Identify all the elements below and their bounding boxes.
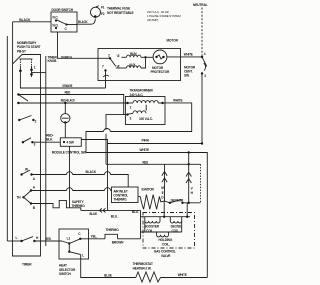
wire yellow: heat selector to thermo	[80, 235, 105, 239]
wire pink: module to cent switch line	[81, 139, 203, 145]
svg-text:N.O.: N.O.	[53, 24, 59, 28]
gas control valve dashed box	[143, 213, 195, 258]
svg-text:WHITE: WHITE	[178, 273, 187, 277]
svg-text:RED-BLACK: RED-BLACK	[61, 99, 76, 103]
svg-text:HEATER-2 W.: HEATER-2 W.	[133, 266, 152, 270]
svg-text:THERMO.: THERMO.	[113, 198, 127, 202]
wire: white drop to red junction	[188, 151, 201, 203]
svg-text:ORANGE: ORANGE	[62, 84, 72, 88]
svg-text:WHITE: WHITE	[140, 148, 150, 152]
timer contact TH changeover	[17, 186, 36, 210]
supply system note	[147, 10, 181, 22]
node NEUTRAL (dashed drop)	[193, 3, 208, 57]
wire blue: heat selector to thermostat heater	[81, 255, 136, 278]
heat selector switch box	[59, 229, 89, 276]
ignitor	[138, 187, 165, 238]
svg-text:MOTOR: MOTOR	[167, 39, 179, 43]
svg-text:L: L	[16, 236, 18, 240]
module control switch box	[52, 138, 87, 155]
svg-text:PINK: PINK	[142, 139, 150, 143]
wire: timer to air inlet thermo (lower)	[31, 188, 112, 191]
wire orange: push-to-start to motor terminal 7	[20, 71, 105, 88]
motor box	[98, 39, 181, 81]
gas valve bottom rail	[141, 231, 182, 233]
connector V-H (sensor plug)	[186, 164, 194, 203]
svg-text:SWITCH: SWITCH	[59, 272, 72, 276]
timer knob dash-dot line	[46, 55, 58, 246]
motor protector	[144, 50, 170, 74]
wire blue: safety thermo to ignitor block	[81, 208, 141, 218]
wire: module drop v1	[69, 146, 71, 208]
svg-text:F2: F2	[101, 12, 105, 16]
svg-text:(30 AMP): (30 AMP)	[147, 18, 158, 22]
wire red-black: timer to transformer primary	[18, 99, 127, 103]
svg-text:BLACK: BLACK	[19, 18, 31, 22]
svg-text:L1: L1	[67, 237, 71, 241]
wire brown: thermo to gas valve	[118, 238, 141, 240]
svg-text:E: E	[162, 191, 164, 195]
svg-text:RED: RED	[45, 237, 51, 241]
wire L1 black feed bus (double line, left edge)	[7, 22, 12, 241]
svg-text:BLACK: BLACK	[86, 170, 97, 174]
thermostat heater resistor	[133, 262, 161, 282]
svg-text:BLU.: BLU.	[132, 210, 139, 214]
sensor	[165, 198, 201, 204]
svg-text:L: L	[82, 254, 84, 258]
svg-text:WHITE: WHITE	[173, 98, 183, 102]
motor terminal 2 + start switch	[108, 54, 120, 69]
door switch S1	[51, 8, 77, 32]
timer contact L-H (heat)	[7, 236, 39, 242]
svg-text:BLUE: BLUE	[104, 274, 112, 278]
svg-text:IGNITOR: IGNITOR	[142, 187, 155, 191]
wire: module drop to blue circuit	[107, 144, 109, 211]
push-to-start button PB-ST	[19, 59, 36, 76]
svg-text:THERMO.: THERMO.	[72, 204, 86, 208]
svg-text:RED: RED	[143, 160, 149, 164]
svg-text:PB-ST: PB-ST	[17, 49, 26, 53]
svg-text:4 SW: 4 SW	[67, 141, 74, 145]
wire: cent switch down to pink junction	[201, 74, 203, 144]
secondary coil	[170, 217, 182, 233]
wire black: timer to air inlet thermo	[32, 170, 129, 187]
svg-text:THERMAL FUSE: THERMAL FUSE	[107, 6, 130, 10]
motor terminal 7	[102, 65, 109, 89]
connector M-E-D (ignitor plug)	[161, 164, 167, 201]
svg-text:SW.: SW.	[184, 74, 190, 78]
wire red: timer to ignitor circuit	[18, 91, 123, 115]
svg-text:TIMER: TIMER	[22, 263, 32, 267]
svg-text:WHITE: WHITE	[184, 53, 193, 57]
wire purple: door switch to motor terminal 2	[58, 32, 111, 59]
timer contact T4	[20, 168, 35, 182]
svg-text:PURPLE: PURPLE	[61, 55, 72, 59]
thermal fuse F	[91, 6, 134, 18]
timer contact T1 (red / red-black)	[17, 93, 28, 104]
motor run winding	[122, 52, 146, 57]
svg-text:KNOB: KNOB	[48, 59, 58, 63]
holding coil	[157, 232, 173, 246]
svg-text:100 V.A.C.: 100 V.A.C.	[139, 117, 153, 121]
svg-text:THERMO.: THERMO.	[106, 228, 120, 232]
gas valve top rail	[141, 201, 191, 218]
svg-text:W: W	[25, 168, 28, 172]
wire black from L1 to door switch	[13, 18, 51, 22]
svg-text:N.C.: N.C.	[53, 16, 59, 20]
svg-text:NOT RESETTABLE: NOT RESETTABLE	[107, 11, 134, 15]
wire white: thermostat heater to right return	[161, 273, 208, 278]
timer box	[13, 55, 41, 267]
svg-text:RED: RED	[65, 91, 71, 95]
wire red: timer to heat selector switch	[34, 237, 69, 244]
wire red-blk to module control sw	[32, 134, 60, 143]
transformer T1	[125, 89, 165, 125]
wire white: transformer secondary return loop	[86, 98, 192, 152]
buzzer BZ	[61, 102, 70, 138]
cycling thermo	[105, 228, 124, 245]
svg-text:BLACK: BLACK	[78, 20, 88, 24]
momentary push-to-start label	[17, 41, 41, 54]
svg-text:PROTECTOR: PROTECTOR	[151, 70, 170, 74]
wire: transformer lower-left to black wire	[106, 115, 189, 165]
wire white: module area to gas valve return	[86, 148, 207, 277]
timer contact T3	[22, 138, 36, 147]
motor aux winding	[116, 57, 146, 68]
svg-text:'A': 'A'	[117, 54, 121, 58]
svg-text:VALVE: VALVE	[161, 254, 170, 258]
svg-text:BLK.: BLK.	[46, 138, 53, 142]
wire black from door switch to thermal fuse	[67, 19, 96, 25]
wire white: motor to centrifugal switch	[167, 53, 202, 57]
timer contact T2	[18, 116, 37, 124]
svg-text:BROWN: BROWN	[112, 241, 124, 245]
svg-text:NEUTRAL: NEUTRAL	[193, 3, 208, 7]
svg-text:DOOR SWITCH: DOOR SWITCH	[52, 8, 74, 12]
svg-text:COIL.: COIL.	[162, 242, 170, 246]
booster coil	[144, 217, 160, 233]
air inlet control thermo box	[112, 187, 139, 203]
svg-text:YEL.: YEL.	[91, 235, 98, 239]
safety thermo	[31, 200, 85, 211]
svg-text:F1: F1	[101, 6, 105, 10]
svg-text:BLUE: BLUE	[90, 212, 98, 216]
motor centrifugal switch	[184, 52, 207, 78]
svg-text:BLU.: BLU.	[111, 215, 118, 219]
